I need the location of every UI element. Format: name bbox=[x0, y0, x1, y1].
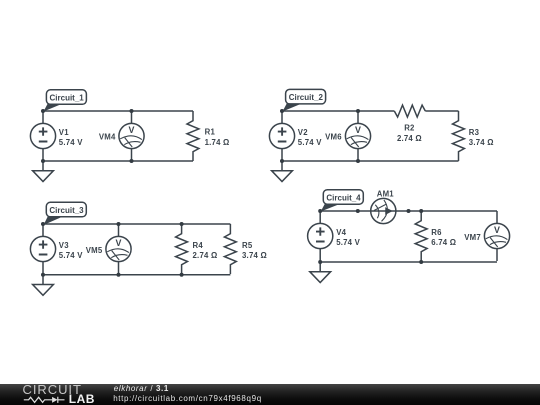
svg-text:R6: R6 bbox=[431, 228, 442, 237]
svg-text:R2: R2 bbox=[404, 124, 415, 133]
svg-text:VM5: VM5 bbox=[86, 246, 103, 255]
svg-text:R1: R1 bbox=[205, 128, 216, 137]
svg-text:V1: V1 bbox=[59, 128, 69, 137]
svg-text:2.74 Ω: 2.74 Ω bbox=[193, 251, 218, 260]
svg-text:3.74 Ω: 3.74 Ω bbox=[469, 138, 494, 147]
svg-text:V2: V2 bbox=[298, 128, 308, 137]
svg-text:Circuit_3: Circuit_3 bbox=[49, 206, 84, 215]
svg-text:VM7: VM7 bbox=[464, 233, 481, 242]
svg-text:VM4: VM4 bbox=[99, 133, 116, 142]
svg-text:1.74 Ω: 1.74 Ω bbox=[205, 138, 230, 147]
svg-text:Circuit_1: Circuit_1 bbox=[50, 94, 85, 103]
svg-text:R4: R4 bbox=[193, 241, 204, 250]
svg-text:6.74 Ω: 6.74 Ω bbox=[431, 238, 456, 247]
svg-text:R3: R3 bbox=[469, 128, 480, 137]
svg-text:R5: R5 bbox=[242, 241, 253, 250]
svg-text:Circuit_2: Circuit_2 bbox=[289, 93, 324, 102]
svg-text:VM6: VM6 bbox=[325, 133, 342, 142]
svg-text:AM1: AM1 bbox=[377, 189, 395, 198]
svg-text:5.74 V: 5.74 V bbox=[59, 251, 83, 260]
svg-text:V3: V3 bbox=[59, 241, 69, 250]
svg-text:5.74 V: 5.74 V bbox=[59, 138, 83, 147]
svg-text:5.74 V: 5.74 V bbox=[298, 138, 322, 147]
svg-text:3.74 Ω: 3.74 Ω bbox=[242, 251, 267, 260]
svg-text:Circuit_4: Circuit_4 bbox=[326, 194, 361, 203]
svg-text:V4: V4 bbox=[336, 228, 346, 237]
svg-text:5.74 V: 5.74 V bbox=[336, 238, 360, 247]
svg-text:2.74 Ω: 2.74 Ω bbox=[397, 134, 422, 143]
